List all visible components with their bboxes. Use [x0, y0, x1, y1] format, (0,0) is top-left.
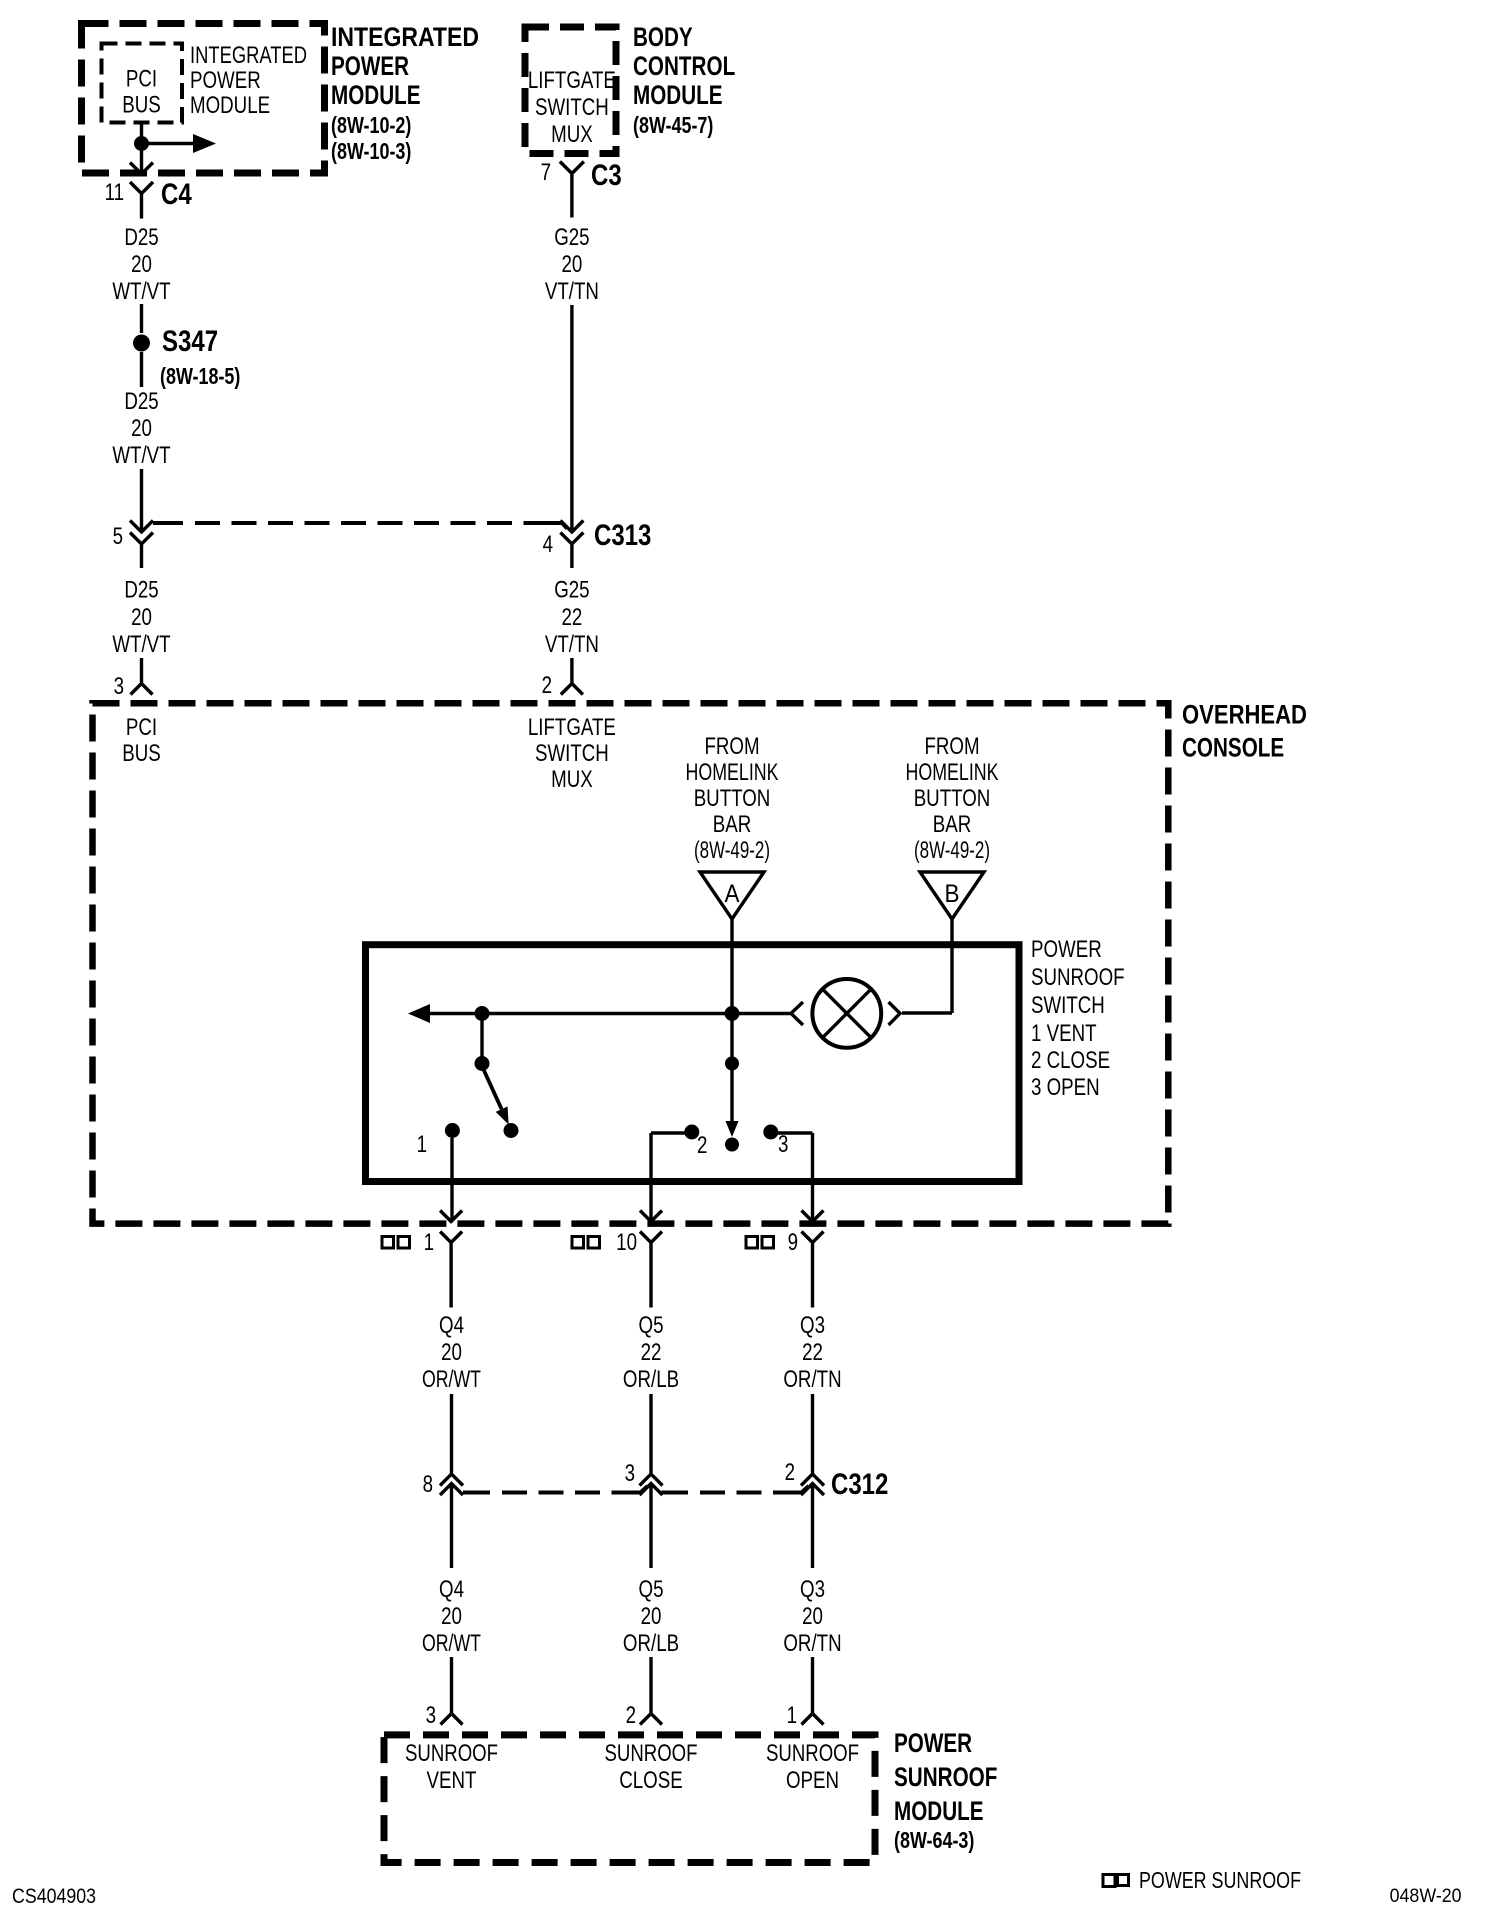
svg-text:OPEN: OPEN	[786, 1767, 839, 1794]
svg-text:1: 1	[417, 1131, 427, 1158]
svg-text:CS404903: CS404903	[12, 1885, 96, 1908]
svg-text:20: 20	[441, 1339, 462, 1366]
svg-text:OR/LB: OR/LB	[623, 1630, 679, 1657]
wire contact3 to console pin 9	[771, 1133, 813, 1220]
svg-text:(8W-49-2): (8W-49-2)	[694, 837, 770, 864]
svg-text:4: 4	[543, 531, 553, 558]
svg-text:2: 2	[697, 1132, 707, 1159]
switch common rail with left arrow	[408, 1004, 791, 1023]
BCM title	[633, 22, 735, 138]
body control module box	[525, 27, 616, 154]
wire G25 22 VT/TN (C313 to console pin 2)	[545, 577, 599, 684]
svg-text:20: 20	[131, 251, 152, 278]
svg-text:INTEGRATED: INTEGRATED	[331, 22, 479, 52]
console exit connector pin 9 (power sunroof marker)	[746, 1211, 824, 1308]
svg-text:POWER: POWER	[331, 51, 409, 81]
svg-text:G25: G25	[554, 577, 589, 604]
svg-text:MODULE: MODULE	[894, 1796, 984, 1826]
svg-text:BAR: BAR	[933, 811, 972, 838]
svg-text:20: 20	[802, 1603, 823, 1630]
node PCI BUS (console)	[122, 714, 161, 767]
svg-text:2: 2	[626, 1702, 636, 1729]
svg-text:MUX: MUX	[551, 121, 593, 148]
wire contact1 to console pin 1	[450, 1138, 453, 1220]
svg-text:3: 3	[778, 1131, 788, 1158]
svg-text:SWITCH: SWITCH	[535, 740, 609, 767]
svg-text:11: 11	[105, 179, 124, 206]
svg-text:2 CLOSE: 2 CLOSE	[1031, 1047, 1110, 1074]
from homelink button bar label B	[906, 733, 999, 864]
svg-text:SUNROOF: SUNROOF	[405, 1740, 498, 1767]
junction node on rail (wire A)	[725, 1006, 740, 1021]
svg-text:PCI: PCI	[126, 66, 157, 93]
power sunroof module box	[384, 1735, 875, 1863]
switch contact 3	[763, 1125, 788, 1159]
svg-text:9: 9	[788, 1229, 798, 1256]
splice S347	[133, 325, 240, 389]
svg-text:INTEGRATED: INTEGRATED	[190, 42, 307, 69]
svg-text:SUNROOF: SUNROOF	[1031, 964, 1125, 991]
node LIFTGATE SWITCH MUX (console)	[528, 714, 616, 793]
wire Q4 20 OR/WT (console to C312)	[422, 1312, 481, 1473]
svg-text:HOMELINK: HOMELINK	[686, 759, 779, 786]
connector C3 pin 7	[541, 159, 622, 218]
junction node on rail (pivot)	[475, 1006, 490, 1021]
svg-text:LIFTGATE: LIFTGATE	[528, 67, 616, 94]
svg-text:POWER: POWER	[894, 1728, 972, 1758]
svg-text:3 OPEN: 3 OPEN	[1031, 1074, 1100, 1101]
svg-text:OR/TN: OR/TN	[783, 1366, 841, 1393]
svg-text:WT/VT: WT/VT	[112, 442, 170, 469]
svg-text:D25: D25	[124, 577, 158, 604]
svg-text:048W-20: 048W-20	[1390, 1886, 1462, 1907]
svg-text:OVERHEAD: OVERHEAD	[1182, 700, 1307, 730]
sheet number CS404903	[12, 1885, 96, 1908]
svg-text:VT/TN: VT/TN	[545, 278, 599, 305]
wire D25 20 WT/VT (S347 to C313)	[112, 352, 170, 531]
console exit connector pin 10 (power sunroof marker)	[572, 1211, 662, 1308]
svg-text:MUX: MUX	[551, 766, 593, 793]
svg-text:C313: C313	[594, 519, 651, 552]
switch title	[1031, 936, 1125, 1101]
wire G25 20 VT/TN (BCM to C313)	[545, 224, 599, 531]
wire from triangle A down into switch	[730, 919, 733, 1013]
in-line connector C313	[113, 519, 652, 568]
svg-text:Q3: Q3	[800, 1312, 825, 1339]
IPM title	[331, 22, 479, 164]
svg-text:Q5: Q5	[639, 1576, 664, 1603]
svg-text:SWITCH: SWITCH	[1031, 992, 1105, 1019]
wire from triangle B down to lamp	[902, 919, 952, 1013]
svg-text:BUTTON: BUTTON	[694, 785, 771, 812]
lamp (sunroof switch illumination)	[791, 979, 900, 1048]
power sunroof switch box S1	[366, 945, 1020, 1182]
svg-text:S347: S347	[162, 325, 218, 358]
PCI BUS node box inside IPM	[102, 44, 183, 123]
svg-text:OR/WT: OR/WT	[422, 1366, 481, 1393]
svg-text:A: A	[725, 880, 740, 908]
svg-text:BUS: BUS	[122, 92, 161, 119]
svg-text:Q5: Q5	[639, 1312, 664, 1339]
svg-text:C4: C4	[161, 178, 192, 211]
svg-text:(8W-10-2): (8W-10-2)	[331, 112, 411, 138]
svg-text:(8W-64-3): (8W-64-3)	[894, 1827, 974, 1853]
svg-text:D25: D25	[124, 224, 158, 251]
svg-text:20: 20	[131, 415, 152, 442]
svg-text:BUS: BUS	[122, 740, 161, 767]
svg-text:MODULE: MODULE	[633, 80, 723, 110]
svg-text:HOMELINK: HOMELINK	[906, 759, 999, 786]
overhead console box	[93, 703, 1169, 1223]
sheet number 048W-20	[1390, 1886, 1462, 1907]
svg-text:POWER: POWER	[190, 67, 261, 94]
svg-text:(8W-18-5): (8W-18-5)	[160, 363, 240, 389]
svg-text:2: 2	[542, 672, 552, 699]
legend power sunroof marker	[1103, 1867, 1301, 1893]
svg-text:WT/VT: WT/VT	[112, 631, 170, 658]
node SUNROOF OPEN	[766, 1740, 859, 1794]
svg-text:22: 22	[561, 604, 582, 631]
svg-text:1: 1	[787, 1702, 797, 1729]
connector pin 2 into overhead console	[542, 672, 583, 699]
svg-text:B: B	[945, 880, 960, 908]
svg-text:22: 22	[802, 1339, 823, 1366]
svg-text:MODULE: MODULE	[331, 80, 421, 110]
wire A end arrow between contacts	[725, 1014, 739, 1152]
module entry connector pin 3	[426, 1702, 463, 1729]
svg-text:10: 10	[616, 1229, 637, 1256]
svg-text:20: 20	[441, 1603, 462, 1630]
svg-text:8: 8	[423, 1471, 433, 1498]
svg-text:C3: C3	[591, 159, 622, 192]
wire inside IPM with junction and arrow	[134, 123, 216, 173]
module entry connector pin 1	[787, 1702, 824, 1729]
svg-text:BODY: BODY	[633, 22, 693, 52]
svg-text:2: 2	[785, 1459, 795, 1486]
in-line connector C312	[423, 1459, 889, 1568]
svg-text:(8W-45-7): (8W-45-7)	[633, 112, 713, 138]
svg-text:22: 22	[641, 1339, 662, 1366]
svg-text:LIFTGATE: LIFTGATE	[528, 714, 616, 741]
svg-text:1: 1	[424, 1229, 434, 1256]
switch contact 1	[417, 1123, 460, 1158]
svg-text:D25: D25	[124, 388, 158, 415]
svg-text:POWER: POWER	[1031, 936, 1102, 963]
svg-text:5: 5	[113, 523, 123, 550]
triangle connector B	[920, 872, 984, 919]
wire D25 20 WT/VT (IPM to S347)	[112, 224, 170, 333]
svg-text:OR/WT: OR/WT	[422, 1630, 481, 1657]
svg-text:3: 3	[625, 1460, 635, 1487]
wire Q5 20 OR/LB (C312 to sunroof module)	[623, 1576, 679, 1713]
overhead console title	[1182, 700, 1307, 763]
svg-text:Q4: Q4	[439, 1576, 464, 1603]
triangle connector A	[700, 872, 764, 919]
svg-text:1 VENT: 1 VENT	[1031, 1020, 1097, 1047]
svg-text:20: 20	[641, 1603, 662, 1630]
from homelink button bar label A	[686, 733, 779, 864]
svg-text:WT/VT: WT/VT	[112, 278, 170, 305]
svg-text:OR/LB: OR/LB	[623, 1366, 679, 1393]
svg-text:20: 20	[561, 251, 582, 278]
svg-text:FROM: FROM	[924, 733, 979, 760]
wire Q5 22 OR/LB (console to C312)	[623, 1312, 679, 1473]
console exit connector pin 1 (power sunroof marker)	[382, 1211, 462, 1308]
wire contact2 to console pin 10	[651, 1133, 692, 1220]
svg-text:SUNROOF: SUNROOF	[605, 1740, 698, 1767]
IPM internal label	[190, 42, 307, 119]
svg-text:CONTROL: CONTROL	[633, 51, 735, 81]
svg-text:BAR: BAR	[713, 811, 752, 838]
svg-text:BUTTON: BUTTON	[914, 785, 991, 812]
svg-text:SUNROOF: SUNROOF	[766, 1740, 859, 1767]
svg-text:SWITCH: SWITCH	[535, 94, 609, 121]
connector pin 3 into overhead console	[114, 673, 153, 700]
svg-text:POWER SUNROOF: POWER SUNROOF	[1139, 1867, 1301, 1893]
svg-text:PCI: PCI	[126, 714, 157, 741]
power sunroof module title	[894, 1728, 997, 1853]
integrated power module U1 box	[82, 24, 325, 174]
svg-text:OR/TN: OR/TN	[783, 1630, 841, 1657]
svg-text:VT/TN: VT/TN	[545, 631, 599, 658]
svg-text:Q4: Q4	[439, 1312, 464, 1339]
node SUNROOF CLOSE	[605, 1740, 698, 1794]
svg-text:(8W-10-3): (8W-10-3)	[331, 138, 411, 164]
svg-text:3: 3	[114, 673, 124, 700]
svg-text:Q3: Q3	[800, 1576, 825, 1603]
svg-text:CLOSE: CLOSE	[619, 1767, 682, 1794]
svg-text:20: 20	[131, 604, 152, 631]
node SUNROOF VENT	[405, 1740, 498, 1794]
svg-text:VENT: VENT	[427, 1767, 477, 1794]
svg-text:G25: G25	[554, 224, 589, 251]
switch contact 2	[684, 1125, 707, 1160]
svg-text:MODULE: MODULE	[190, 92, 270, 119]
svg-text:(8W-49-2): (8W-49-2)	[914, 837, 990, 864]
svg-text:7: 7	[541, 159, 551, 186]
module entry connector pin 2	[626, 1702, 662, 1729]
wire Q4 20 OR/WT (C312 to sunroof module)	[422, 1576, 481, 1713]
wire D25 20 WT/VT (C313 to overhead console pin 3)	[112, 577, 170, 684]
svg-text:3: 3	[426, 1702, 436, 1729]
svg-text:SUNROOF: SUNROOF	[894, 1762, 997, 1792]
svg-text:FROM: FROM	[704, 733, 759, 760]
svg-text:CONSOLE: CONSOLE	[1182, 733, 1284, 763]
connector C4 pin 11	[105, 163, 192, 219]
svg-text:C312: C312	[831, 1468, 888, 1501]
wire Q3 20 OR/TN (C312 to sunroof module)	[783, 1576, 841, 1713]
wire Q3 22 OR/TN (console to C312)	[783, 1312, 841, 1473]
switch pivot arm	[475, 1014, 519, 1139]
